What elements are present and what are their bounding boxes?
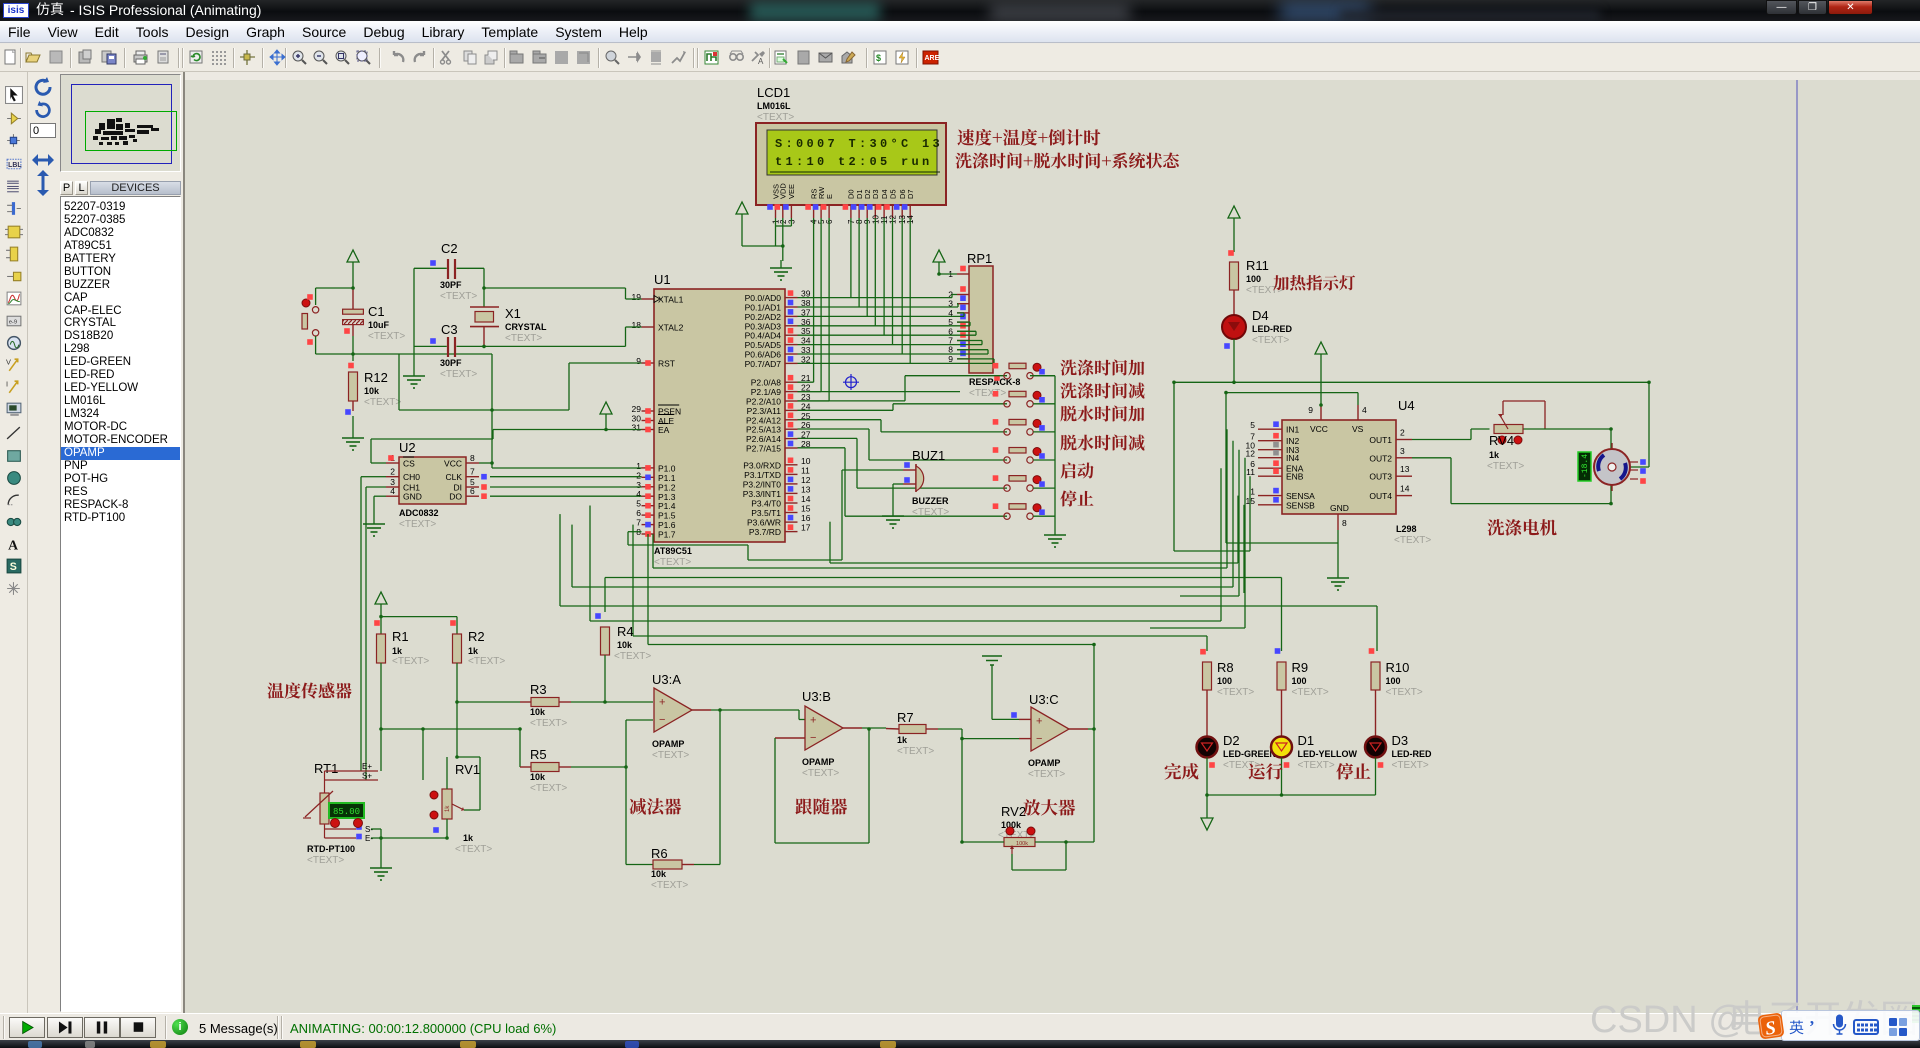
svg-text:13: 13 bbox=[1400, 464, 1410, 474]
potentiometer RV1 1k bbox=[430, 762, 492, 855]
ground RT1 bbox=[370, 860, 392, 880]
svg-text:t1:10 t2:05 run: t1:10 t2:05 run bbox=[775, 155, 933, 169]
resistor R7 1k bbox=[886, 710, 938, 757]
svg-text:1k: 1k bbox=[1489, 450, 1500, 460]
wire RV1 top bottom bbox=[446, 757, 448, 838]
ground arrow LEDs bbox=[1201, 818, 1213, 830]
svg-text:R1: R1 bbox=[392, 629, 409, 644]
svg-text:4: 4 bbox=[390, 486, 395, 496]
svg-text:100: 100 bbox=[1292, 676, 1307, 686]
svg-text:LED-GREEN: LED-GREEN bbox=[1223, 749, 1276, 759]
svg-text:R2: R2 bbox=[468, 629, 485, 644]
power terminal U4 VCC bbox=[1315, 342, 1327, 405]
svg-text:R3: R3 bbox=[530, 682, 547, 697]
svg-text:OPAMP: OPAMP bbox=[802, 757, 834, 767]
svg-text:LED-YELLOW: LED-YELLOW bbox=[1298, 749, 1358, 759]
svg-text:<TEXT>: <TEXT> bbox=[651, 880, 688, 891]
svg-text:<TEXT>: <TEXT> bbox=[1252, 335, 1289, 346]
svg-text:<TEXT>: <TEXT> bbox=[802, 768, 839, 779]
ground C2 C3 bbox=[403, 368, 425, 388]
svg-text:S+: S+ bbox=[362, 772, 372, 781]
wire R4 top bbox=[604, 578, 606, 655]
svg-text:10k: 10k bbox=[530, 772, 546, 782]
svg-text:P1.7: P1.7 bbox=[658, 530, 676, 540]
push button key3 bbox=[993, 419, 1045, 435]
wire U4 VS bbox=[1226, 393, 1358, 543]
svg-text:LCD1: LCD1 bbox=[757, 85, 790, 100]
annotation 脱水时间减 bbox=[1060, 434, 1144, 450]
wire U3:A output bbox=[711, 710, 805, 720]
wire bundle P1 P3 to driver bbox=[560, 429, 1377, 651]
svg-text:A: A bbox=[758, 57, 764, 66]
svg-text:GND: GND bbox=[1330, 503, 1349, 513]
svg-text:CRYSTAL: CRYSTAL bbox=[505, 322, 547, 332]
svg-text:<TEXT>: <TEXT> bbox=[364, 397, 401, 408]
svg-text:VEE: VEE bbox=[787, 184, 796, 199]
power terminal reset bbox=[347, 250, 359, 288]
resistor R9 100 bbox=[1275, 648, 1329, 736]
svg-text:<TEXT>: <TEXT> bbox=[1217, 687, 1254, 698]
wire C2 C3 left bbox=[413, 268, 415, 368]
svg-text:1k: 1k bbox=[468, 646, 479, 656]
svg-text:15: 15 bbox=[801, 504, 811, 514]
wire LCD data verticals bbox=[851, 218, 910, 363]
svg-text:18: 18 bbox=[632, 320, 642, 330]
wire OUT2 to motor bottom bbox=[1412, 458, 1611, 504]
svg-text:<TEXT>: <TEXT> bbox=[1292, 687, 1329, 698]
svg-text:LED-RED: LED-RED bbox=[1392, 749, 1432, 759]
svg-text:VCC: VCC bbox=[1310, 424, 1328, 434]
svg-text:<TEXT>: <TEXT> bbox=[1298, 760, 1335, 771]
svg-text:<TEXT>: <TEXT> bbox=[368, 331, 405, 342]
wire U3:C output to bundle bbox=[648, 534, 1094, 645]
svg-text:<TEXT>: <TEXT> bbox=[468, 656, 505, 667]
ground buzzer bbox=[882, 508, 904, 528]
svg-text:6: 6 bbox=[636, 508, 641, 518]
svg-text:RT1: RT1 bbox=[314, 761, 338, 776]
svg-text:S: S bbox=[10, 561, 17, 573]
svg-text:U3:C: U3:C bbox=[1029, 692, 1059, 707]
svg-text:ADC0832: ADC0832 bbox=[399, 508, 439, 518]
motor washing bbox=[1578, 443, 1646, 491]
svg-text:$: $ bbox=[876, 53, 881, 63]
svg-text:LBL: LBL bbox=[8, 162, 21, 169]
svg-text:X1: X1 bbox=[505, 306, 521, 321]
annotation 运行 bbox=[1249, 763, 1283, 779]
wire U2 CH1 bbox=[366, 487, 386, 780]
svg-text:RV2: RV2 bbox=[1001, 804, 1026, 819]
svg-text:<TEXT>: <TEXT> bbox=[1394, 535, 1431, 546]
svg-text:<TEXT>: <TEXT> bbox=[455, 844, 492, 855]
svg-text:8: 8 bbox=[1342, 518, 1347, 528]
annotation 完成 bbox=[1165, 763, 1199, 779]
svg-text:e-9: e-9 bbox=[9, 320, 17, 326]
svg-text:<TEXT>: <TEXT> bbox=[1223, 760, 1260, 771]
resistor R12 10k bbox=[345, 363, 401, 430]
svg-text:U1: U1 bbox=[654, 272, 671, 287]
svg-text:’: ’ bbox=[1809, 1017, 1815, 1036]
svg-text:P3.7/RD: P3.7/RD bbox=[749, 527, 781, 537]
svg-text:C1: C1 bbox=[368, 304, 385, 319]
svg-text:9: 9 bbox=[1308, 405, 1313, 415]
wire U3:C output bbox=[1088, 645, 1094, 843]
LED D2 LED-GREEN bbox=[1197, 733, 1277, 795]
ADC U2 ADC0832 bbox=[386, 440, 487, 530]
svg-text:12: 12 bbox=[801, 475, 811, 485]
svg-text:<TEXT>: <TEXT> bbox=[652, 750, 689, 761]
svg-text:3: 3 bbox=[1400, 446, 1405, 456]
annotation 脱水时间加 bbox=[1060, 405, 1144, 421]
wire EA to U2 CS bbox=[371, 430, 642, 464]
svg-text:30PF: 30PF bbox=[440, 358, 462, 368]
ground U4 bbox=[1327, 570, 1349, 590]
wire P1.0 bbox=[492, 467, 642, 469]
push button reset bbox=[302, 288, 353, 354]
annotation speed temp countdown bbox=[957, 129, 1100, 146]
resistor R8 100 bbox=[1200, 649, 1254, 736]
potentiometer RV2 100k bbox=[998, 804, 1035, 854]
power terminal EA bbox=[600, 402, 612, 430]
origin marker bbox=[843, 374, 859, 390]
svg-text:+: + bbox=[1036, 716, 1042, 728]
capacitor C3 30pF bbox=[414, 322, 626, 380]
svg-text:A: A bbox=[8, 537, 18, 552]
wire RV2 connections bbox=[962, 739, 1094, 870]
svg-text:85.00: 85.00 bbox=[333, 807, 360, 817]
op-amp U3:C OPAMP bbox=[1028, 692, 1088, 780]
svg-text:<TEXT>: <TEXT> bbox=[912, 507, 949, 518]
svg-text:R4: R4 bbox=[617, 624, 634, 639]
wire buttons common bbox=[1030, 376, 1055, 527]
annotation 启动 bbox=[1060, 462, 1093, 478]
svg-text:P3.0/RXD: P3.0/RXD bbox=[743, 460, 781, 470]
resistor R6 10k bbox=[651, 846, 720, 891]
svg-text:16: 16 bbox=[801, 513, 811, 523]
svg-text:11: 11 bbox=[801, 465, 810, 475]
svg-text:10uF: 10uF bbox=[368, 320, 390, 330]
svg-text:−: − bbox=[1036, 733, 1042, 745]
resistor R5 10k bbox=[520, 747, 626, 794]
svg-text:<TEXT>: <TEXT> bbox=[1487, 461, 1524, 472]
svg-text:100: 100 bbox=[1386, 676, 1401, 686]
svg-text:E: E bbox=[825, 194, 834, 199]
svg-text:9: 9 bbox=[636, 356, 641, 366]
svg-text:OUT2: OUT2 bbox=[1369, 453, 1392, 463]
power terminal R1 R2 bbox=[375, 592, 457, 617]
svg-text:7: 7 bbox=[470, 467, 475, 477]
resistor R2 1k bbox=[450, 617, 505, 757]
svg-text:13: 13 bbox=[801, 484, 811, 494]
svg-text:BUZ1: BUZ1 bbox=[912, 448, 945, 463]
capacitor C1 10uF bbox=[343, 288, 406, 342]
svg-text:C3: C3 bbox=[441, 322, 458, 337]
wire P2 rows to buttons bbox=[798, 376, 1008, 517]
svg-text:D3: D3 bbox=[871, 189, 880, 199]
push button key4 bbox=[993, 447, 1045, 463]
svg-text:RV1: RV1 bbox=[455, 762, 480, 777]
wire R2 to RV1 wiper bbox=[457, 757, 480, 810]
svg-text:<TEXT>: <TEXT> bbox=[897, 746, 934, 757]
svg-text:4: 4 bbox=[636, 489, 641, 499]
svg-text:LED-RED: LED-RED bbox=[1252, 324, 1292, 334]
svg-text:+: + bbox=[810, 715, 816, 727]
wire U2 CH0 to RTD E+ bbox=[361, 477, 386, 771]
svg-text:S:0007 T:30°C 13: S:0007 T:30°C 13 bbox=[775, 137, 943, 151]
svg-text:<TEXT>: <TEXT> bbox=[505, 333, 542, 344]
svg-text:P2.7/A15: P2.7/A15 bbox=[746, 444, 781, 454]
svg-text:CS: CS bbox=[403, 459, 415, 469]
svg-text:19: 19 bbox=[632, 292, 642, 302]
svg-text:VCC: VCC bbox=[444, 459, 462, 469]
wire OUT1 to RV4 bbox=[1412, 429, 1490, 440]
svg-text:RTD-PT100: RTD-PT100 bbox=[307, 844, 355, 854]
wire U3:B feedback bbox=[775, 728, 869, 843]
wire D4 down bbox=[1233, 339, 1235, 382]
buzzer BUZ1 bbox=[903, 448, 949, 518]
svg-text:P3.3/INT1: P3.3/INT1 bbox=[743, 489, 782, 499]
wire S+ riser bbox=[422, 729, 424, 780]
annotation washing motor bbox=[1487, 519, 1556, 536]
wire RT1 S- E- ground bbox=[371, 829, 447, 860]
potentiometer RV4 1k bbox=[1487, 401, 1545, 472]
svg-text:ENB: ENB bbox=[1286, 472, 1304, 482]
svg-text:+: + bbox=[659, 697, 665, 709]
svg-text:OUT3: OUT3 bbox=[1369, 472, 1392, 482]
wire buzzer ground bbox=[893, 484, 903, 508]
svg-text:1k: 1k bbox=[897, 735, 908, 745]
svg-text:1k: 1k bbox=[392, 646, 403, 656]
capacitor C2 30pF bbox=[414, 241, 484, 302]
svg-text:RP1: RP1 bbox=[967, 251, 992, 266]
svg-text:D7: D7 bbox=[906, 189, 915, 199]
annotation amplifier bbox=[1023, 799, 1075, 815]
svg-text:EA: EA bbox=[658, 425, 670, 435]
ground buttons bbox=[1044, 527, 1066, 547]
svg-text:<TEXT>: <TEXT> bbox=[530, 783, 567, 794]
annotation subtractor bbox=[629, 798, 681, 814]
svg-text:17: 17 bbox=[801, 523, 811, 533]
LED D1 LED-YELLOW bbox=[1271, 733, 1357, 795]
svg-text:4: 4 bbox=[1362, 405, 1367, 415]
svg-text:D3: D3 bbox=[1392, 733, 1409, 748]
wire LCD VSS/VDD/VEE bbox=[742, 218, 791, 261]
svg-text:30PF: 30PF bbox=[440, 280, 462, 290]
wire LCD control verticals bbox=[798, 218, 830, 401]
svg-text:2: 2 bbox=[1400, 428, 1405, 438]
microcontroller U1 AT89C51 bbox=[632, 272, 811, 568]
svg-text:D5: D5 bbox=[888, 189, 897, 199]
svg-text:9: 9 bbox=[948, 354, 953, 364]
wire R7 to U3:C inverting bbox=[938, 729, 1031, 739]
annotation temperature sensor bbox=[267, 682, 351, 698]
svg-text:OUT1: OUT1 bbox=[1369, 435, 1392, 445]
svg-text:−: − bbox=[659, 714, 665, 726]
svg-text:R10: R10 bbox=[1386, 660, 1410, 675]
svg-text:OPAMP: OPAMP bbox=[1028, 758, 1060, 768]
annotation heater lamp bbox=[1273, 275, 1355, 291]
svg-text:OPAMP: OPAMP bbox=[652, 739, 684, 749]
wire U4 GND bbox=[1337, 530, 1339, 570]
svg-text:CLK: CLK bbox=[445, 472, 462, 482]
wire R2 to R3 bbox=[457, 701, 520, 703]
svg-text:D2: D2 bbox=[1223, 733, 1240, 748]
svg-text:OUT4: OUT4 bbox=[1369, 491, 1392, 501]
svg-text:R12: R12 bbox=[364, 370, 388, 385]
sheet border bbox=[1796, 80, 1798, 1013]
wire U2 VCC riser bbox=[490, 354, 494, 468]
wire R1 junction to R5 bbox=[381, 702, 520, 767]
svg-text:ARES: ARES bbox=[925, 55, 940, 62]
svg-text:31: 31 bbox=[632, 423, 642, 433]
wire RV4 to motor top bbox=[1524, 429, 1612, 449]
crystal X1 bbox=[470, 268, 547, 348]
LED D4 LED-RED bbox=[1222, 308, 1292, 349]
svg-text:100: 100 bbox=[1246, 274, 1261, 284]
svg-text:5: 5 bbox=[1250, 420, 1255, 430]
svg-text:U3:B: U3:B bbox=[802, 689, 831, 704]
LED D3 LED-RED bbox=[1365, 733, 1432, 795]
resistor R10 100 bbox=[1369, 648, 1423, 736]
svg-text:−: − bbox=[810, 732, 816, 744]
power terminal R11 bbox=[1228, 206, 1240, 252]
svg-text:V: V bbox=[6, 357, 11, 366]
svg-text:R8: R8 bbox=[1217, 660, 1234, 675]
svg-text:P1.2: P1.2 bbox=[658, 482, 676, 492]
svg-text:XTAL2: XTAL2 bbox=[658, 323, 684, 333]
annotation follower bbox=[795, 798, 847, 814]
svg-text:SENSB: SENSB bbox=[1286, 500, 1315, 510]
resistor pack RP1 RESPACK-8 bbox=[948, 251, 1020, 399]
svg-text:R6: R6 bbox=[651, 846, 668, 861]
wire buzzer drive bbox=[628, 470, 903, 560]
svg-text:P3.1/TXD: P3.1/TXD bbox=[744, 470, 781, 480]
svg-text:<TEXT>: <TEXT> bbox=[307, 855, 344, 866]
RTD RT1 RTD-PT100 bbox=[303, 761, 378, 866]
svg-text:12: 12 bbox=[1246, 449, 1256, 459]
svg-text:100: 100 bbox=[1217, 676, 1232, 686]
ground R12 bbox=[342, 430, 364, 450]
svg-text:<TEXT>: <TEXT> bbox=[1028, 769, 1065, 780]
svg-text:<TEXT>: <TEXT> bbox=[399, 519, 436, 530]
wire U2 GND bbox=[374, 496, 386, 516]
svg-text:CH0: CH0 bbox=[403, 472, 420, 482]
svg-text:E+: E+ bbox=[362, 762, 372, 771]
wire VCC rail to motor bbox=[1174, 382, 1649, 551]
svg-text:<TEXT>: <TEXT> bbox=[530, 718, 567, 729]
svg-text:R9: R9 bbox=[1292, 660, 1309, 675]
svg-text:<TEXT>: <TEXT> bbox=[1392, 760, 1429, 771]
svg-text:P3.4/T0: P3.4/T0 bbox=[751, 499, 781, 509]
svg-text:LM016L: LM016L bbox=[757, 101, 791, 111]
push button key2 bbox=[993, 391, 1045, 407]
svg-text:GND: GND bbox=[403, 492, 422, 502]
svg-text:R11: R11 bbox=[1246, 258, 1269, 273]
svg-text:VS: VS bbox=[1352, 424, 1364, 434]
svg-text:10k: 10k bbox=[651, 869, 667, 879]
svg-text:R5: R5 bbox=[530, 747, 547, 762]
svg-text:U3:A: U3:A bbox=[652, 672, 681, 687]
wire U2 VCC bbox=[479, 462, 492, 464]
wire U2 CLK DI DO to P1.1 P1.2 P1.3 bbox=[490, 477, 642, 497]
svg-text:<TEXT>: <TEXT> bbox=[654, 557, 691, 568]
annotation 洗涤时间减 bbox=[1060, 382, 1144, 398]
LCD module LCD1 LM016L bbox=[756, 85, 946, 224]
svg-text:RV4: RV4 bbox=[1489, 433, 1514, 448]
svg-text:-18.4: -18.4 bbox=[1581, 454, 1590, 478]
motor driver U4 L298 bbox=[1246, 398, 1432, 546]
svg-text:10k: 10k bbox=[530, 707, 546, 717]
svg-text:P1.5: P1.5 bbox=[658, 511, 676, 521]
svg-text:P3.6/WR: P3.6/WR bbox=[747, 518, 781, 528]
svg-text:U2: U2 bbox=[399, 440, 416, 455]
svg-text:<TEXT>: <TEXT> bbox=[614, 651, 651, 662]
svg-text:P3.5/T1: P3.5/T1 bbox=[751, 508, 781, 518]
wire R5 to inverting input bbox=[626, 720, 653, 767]
ground U3:C noninverting bbox=[982, 656, 1031, 719]
svg-text:<TEXT>: <TEXT> bbox=[757, 112, 794, 123]
svg-text:<TEXT>: <TEXT> bbox=[969, 388, 1006, 399]
svg-text:<TEXT>: <TEXT> bbox=[440, 369, 477, 380]
svg-text:14: 14 bbox=[801, 494, 811, 504]
svg-text:XTAL1: XTAL1 bbox=[658, 295, 684, 305]
svg-text:<TEXT>: <TEXT> bbox=[392, 656, 429, 667]
resistor R1 1k bbox=[374, 617, 429, 771]
op-amp U3:B OPAMP bbox=[802, 689, 862, 779]
wire U3:B output to R7 bbox=[862, 727, 886, 730]
svg-text:6: 6 bbox=[470, 486, 475, 496]
wire P0 bus rows bbox=[798, 295, 995, 364]
svg-text:P3.2/INT0: P3.2/INT0 bbox=[743, 479, 782, 489]
svg-text:<TEXT>: <TEXT> bbox=[1246, 285, 1283, 296]
push button key5 bbox=[993, 475, 1045, 491]
push button key6 bbox=[993, 503, 1045, 519]
svg-text:IN4: IN4 bbox=[1286, 453, 1300, 463]
svg-text:DO: DO bbox=[449, 492, 462, 502]
annotation 停止 bbox=[1336, 763, 1370, 780]
svg-text:2: 2 bbox=[636, 470, 641, 480]
resistor R11 100 bbox=[1228, 250, 1283, 315]
svg-text:P1.1: P1.1 bbox=[658, 473, 676, 483]
push button key1 bbox=[993, 363, 1045, 379]
wire RST net bbox=[399, 354, 642, 410]
svg-text:2: 2 bbox=[390, 467, 395, 477]
svg-text:14: 14 bbox=[1400, 484, 1410, 494]
svg-text:1k: 1k bbox=[463, 833, 474, 843]
svg-text:BUZZER: BUZZER bbox=[912, 496, 949, 506]
wire LED common rail bbox=[1207, 795, 1376, 818]
wire R6 feedback bbox=[626, 767, 653, 865]
resistor R3 10k bbox=[520, 682, 653, 729]
wire XTAL1 bbox=[484, 288, 642, 299]
svg-text:1k: 1k bbox=[445, 805, 451, 812]
annotation wash dehydrate status bbox=[955, 152, 1179, 168]
svg-text:L298: L298 bbox=[1396, 524, 1417, 534]
svg-text:11: 11 bbox=[1246, 467, 1255, 477]
svg-text:10k: 10k bbox=[617, 640, 633, 650]
power terminal bbox=[736, 202, 748, 246]
annotation 洗涤时间加 bbox=[1060, 359, 1144, 375]
svg-text:8: 8 bbox=[470, 453, 475, 463]
svg-text:IN1: IN1 bbox=[1286, 425, 1300, 435]
ground LCD bbox=[770, 260, 792, 280]
wire XTAL2 bbox=[626, 327, 642, 346]
svg-text:RST: RST bbox=[658, 359, 675, 369]
svg-text:100k: 100k bbox=[1016, 841, 1028, 847]
svg-text:<TEXT>: <TEXT> bbox=[1386, 687, 1423, 698]
svg-text:10: 10 bbox=[801, 456, 811, 466]
svg-text:C2: C2 bbox=[441, 241, 458, 256]
svg-text:R7: R7 bbox=[897, 710, 914, 725]
